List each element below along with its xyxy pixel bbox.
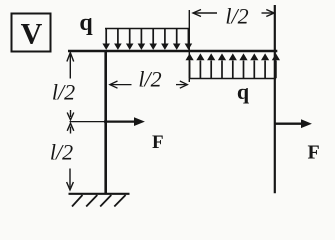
svg-text:q: q: [237, 79, 250, 104]
svg-text:l/2: l/2: [225, 4, 248, 29]
svg-text:l/2: l/2: [50, 140, 73, 165]
svg-text:q: q: [79, 10, 93, 36]
svg-text:l/2: l/2: [52, 80, 75, 105]
svg-text:l/2: l/2: [138, 67, 161, 92]
svg-text:V: V: [21, 18, 43, 51]
svg-text:F: F: [307, 142, 319, 164]
svg-text:F: F: [152, 132, 164, 153]
